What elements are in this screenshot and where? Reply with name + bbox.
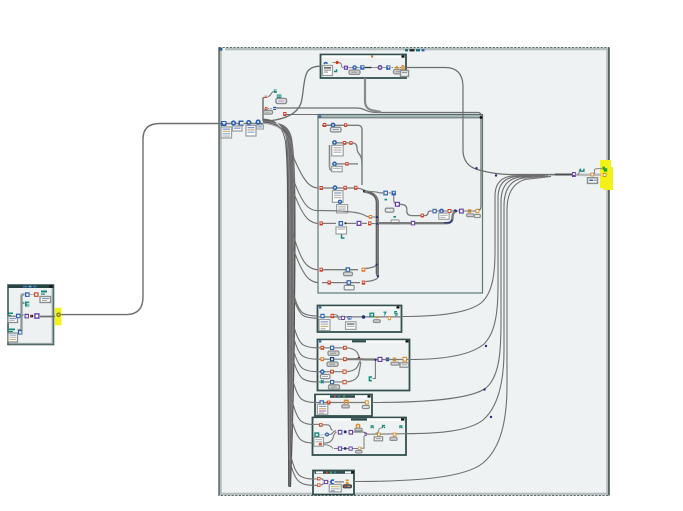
wire: peel-offs into box A [293,290,318,318]
white box under chain [439,213,449,219]
right cluster [555,167,607,184]
wire row4 into junction [322,188,365,191]
node: orange B [476,209,480,213]
cluster const box 2 [233,126,243,131]
wire: peel-offs from bundle into inner frame left nodes [289,146,318,283]
yellow probe right [600,160,611,188]
node: orange bracket [345,400,348,404]
wire redJ to vertical [372,223,377,225]
brace to purple 4 [324,431,337,443]
wire to device [335,481,345,483]
file icon [323,66,333,76]
node: blue circ1 [348,67,353,69]
box [391,220,399,224]
box under row282 [344,285,354,290]
teal bot [393,216,396,218]
orange clamp [357,424,360,428]
mini cluster above (colon/M/equal) [263,90,481,212]
box E subdiagram [313,471,354,495]
node: purple 4 mid [25,314,29,319]
node: blue b row4 [333,185,338,190]
green arrow in probe [603,167,608,172]
label teal ticks [41,291,47,293]
wire bundle waterfall [263,119,296,488]
terminal under row1 [331,127,342,132]
node: red square [34,292,39,297]
wire arrow down to 2) [394,196,395,204]
wire = right long to frame corner [276,108,481,211]
wire 2 to = [268,108,273,110]
node: purple o [378,65,383,70]
node: teal O above [370,313,374,317]
node: blue b row1 [331,123,336,128]
wire row 282.6 [322,276,379,282]
wire to red [30,294,34,296]
gray blobs under = and B [467,214,474,217]
teal L [342,235,345,239]
entry wire 2 [313,442,315,444]
node: conv triangle [221,121,227,126]
node: orange D [388,316,391,320]
terminal under [385,208,394,212]
node: blue o 2 [244,123,247,125]
corner blue dot [220,48,223,51]
node: red r edge 282 [328,281,331,285]
wire: vertical from bundle up [262,98,264,122]
wire D to edge [40,316,61,318]
left-side label + box [9,313,14,315]
row2 [318,358,346,360]
node: blue o 3 [252,123,256,125]
wire row1 [322,125,362,185]
node: red colon [265,95,268,98]
node: orange B1 [377,433,381,437]
wire from box E right [354,176,551,481]
wire row3 [334,163,358,165]
node: blue 4 row223 [339,221,344,226]
bottom row [334,448,358,450]
node: orange 9 [369,215,372,219]
node: red 3 row3 [345,162,348,166]
cluster const box 1 [221,127,232,138]
node: blue 4 top [25,292,30,297]
wire: from top subVI bottom down then right (to H1) [365,78,381,112]
list under row2 [332,145,344,156]
node: purple 4 [338,430,343,435]
node: blue b below row4 [338,200,342,204]
node: blue 4 arrow [236,123,238,125]
top subVI box [321,55,407,79]
wire: main from left window to loop [40,124,263,317]
while-loop outer frame [219,48,609,496]
node: blue o [439,209,444,214]
node: teal u bracket [581,169,584,172]
node: red B row4 [344,186,347,190]
wire R to frame [287,114,319,116]
elbow to green arrow [595,169,603,174]
entry stubs [313,479,318,485]
wire: peel-offs into box B [293,323,318,382]
gray blob under row269 [344,272,353,276]
teal C + wire [373,361,376,379]
bend dots on wires [485,345,487,347]
teal tick [385,199,388,201]
node: purple 9 on wire [411,221,415,226]
top subVI internals [323,61,409,77]
brace [321,479,324,485]
inner case-structure frame [318,115,483,294]
node: navy dot [362,315,365,318]
white box with orange [314,438,324,447]
wire row 269.7 [322,265,378,270]
wire: peel-offs into box E [290,455,313,485]
node: red 7 [331,314,335,318]
right-side rising wire bundle from boxes to cluster [354,175,572,482]
gray blob under [373,320,380,323]
list box A2 [346,322,357,330]
tiny label on top border [405,49,408,51]
node: blue arrow [389,192,392,194]
thick vertical from junction down [365,191,378,276]
node: red C row4 [354,186,357,190]
node: teal 7 [383,312,385,315]
subVI window: left standalone [8,285,54,345]
folder under row3 [332,166,343,172]
yellow probe left [55,308,62,326]
S shape [376,428,383,433]
node: blue tri [357,67,360,69]
node: orange C row269 [362,268,366,272]
teal corner 3 [400,426,403,428]
wire row2 [334,143,362,165]
node: blue n loop [324,63,328,64]
node: teal M [277,95,282,99]
node: orange dash [375,316,378,318]
row4 [318,381,346,383]
node: purple = [364,433,367,434]
list box C [317,404,327,414]
node: purple 4 [459,209,464,214]
node: orange B2 [393,433,397,437]
converge S-curves to junction [347,348,360,359]
ticks under teal glyphs [372,315,396,317]
node: blue dots [320,314,324,318]
orange pin [346,479,349,481]
node: blue sq [320,400,324,405]
box B subdiagram [318,340,410,391]
box C subdiagram [315,395,372,417]
node: blue o 1 [228,123,232,125]
node: purple R [572,172,576,177]
wire from box D right [406,176,548,434]
node: red A row282 [362,281,365,285]
brace [339,63,343,68]
node: 2 conv [432,209,436,214]
box D subdiagram [313,418,407,456]
navy dot [344,430,347,433]
node: red 2 [265,107,268,110]
node: blue 2 lower [18,330,22,335]
node: orange M [403,357,408,362]
wire colon to M [268,92,274,97]
node: orange h [400,67,402,69]
junction dot [363,190,366,193]
node: red 3 edge 223 [320,221,323,225]
node: teal corner [334,69,337,71]
node: red sq [448,209,452,213]
chain row y=211 [431,209,480,220]
terminal under M [276,99,287,104]
node: blue o row2 [332,140,337,145]
wire from box B right [410,175,543,359]
lower: teal ticks [9,329,15,331]
terminal under 2 [264,111,273,115]
node: red 2 row2 [349,141,352,145]
row3 [318,371,346,373]
node: red o [333,62,336,64]
thick horizontal y=223.2 with purple 9 [378,212,455,224]
node: blue o row3 [332,162,337,167]
node: blue C [328,481,330,483]
teal corner 1 [371,426,374,428]
node: blue 2 row269 [346,267,351,272]
node: red 2 row1 [344,123,347,127]
cluster const box 3 [246,126,256,137]
wire: peel-off into box C [292,379,315,403]
list under blue b [337,205,348,213]
U wire from 2) down-right-up to chain [400,204,431,215]
node: red flag [327,401,331,405]
teal corner 2 [383,426,386,429]
node: blue tri2 [383,67,386,69]
entry wire 1 to red M [313,423,320,425]
list under row4 [332,191,343,203]
node: red A row2 [343,141,346,145]
node: red 3 edge 269 [320,268,323,272]
node: orange = [393,358,396,359]
node: purple M [378,357,383,362]
node: blue = [386,358,389,359]
mid cluster [365,191,401,224]
wire row 210.5 to orange 9 [318,211,369,217]
left vertical row2-3 [330,145,333,171]
wire row 223.4 long [322,222,336,224]
light gray band after R [576,174,601,177]
wire: from top subVI right edge, right then down to right cluster [406,68,572,175]
node: purple 2) [395,202,400,207]
orange B in probe [603,173,607,177]
node: teal O [315,433,319,437]
brace [335,315,341,320]
node: orange dot on band [591,173,595,177]
indicator box top-right [40,297,51,303]
wire: S-curve from bundle to top subVI input [268,66,321,121]
node: orange n1 [392,67,395,69]
node: purple D [34,313,39,319]
wire right main [353,432,406,434]
terminal below [588,178,598,184]
node: orange = [468,209,471,210]
node: blue 5 [16,314,20,319]
node: blue c [319,434,325,436]
node: blue 2 [383,191,388,196]
node: red J row223 [362,222,367,224]
left cluster row on main wire [221,119,264,138]
node: red 0 on U [421,214,424,218]
thick dark wire into R [555,174,572,176]
node: purple sq [344,66,348,70]
box under row223 [336,227,347,234]
box A subdiagram [318,306,402,333]
node: orange O [365,400,369,404]
node: blue equals [273,107,276,108]
wire from box C right [372,176,545,403]
wire from box A right [402,175,573,317]
lower list box [8,333,18,342]
node: purple u [341,316,345,320]
cluster const box 4 [257,125,264,129]
node: red 1 [317,477,320,480]
node: purple D row223 [357,221,362,226]
main thick wire right [347,358,377,360]
wire junction to blue2 [365,191,384,193]
node: teal 5 [395,312,397,315]
wire across A [318,316,402,318]
node: navy dot [454,209,457,212]
node: red 2 [317,483,320,486]
wire: peel-offs into box D [292,400,313,443]
node: teal E [25,302,29,307]
device blob [343,485,352,488]
node: dark dot [30,315,33,318]
row1 [318,347,346,349]
node: blue 4 row282 [347,280,352,285]
node: red 3 row4 edge [320,186,323,190]
wire orange9 to vertical [372,216,377,218]
node: blue pause [348,316,352,320]
node: purple D [324,480,328,484]
list box E [329,485,341,492]
list box A1 [319,320,330,331]
node: red R [283,112,286,116]
dark wire seg [365,67,372,69]
node: purple 9 [349,430,354,435]
elbow to teal u [578,169,582,174]
node: red A row1 [323,123,326,127]
node: teal 5 glyph [274,90,277,93]
left window internal wire tree [18,295,25,331]
